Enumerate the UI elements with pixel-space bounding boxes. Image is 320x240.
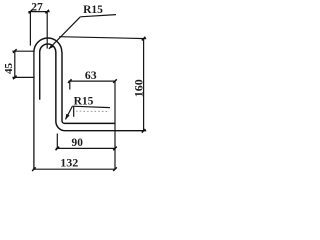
svg-text:132: 132	[60, 156, 78, 170]
dimension 45 line	[14, 51, 16, 79]
part outline: right leg right edge with bottom bend inner radius and strip top edge	[62, 52, 115, 123]
dimension 90 left extension line	[56, 134, 58, 149]
dimension 27 right extension line crossing hook	[46, 12, 48, 49]
svg-text:63: 63	[85, 68, 97, 82]
faint scan remnant dotted line under R15 label	[76, 110, 109, 112]
tick 27 right	[45, 10, 49, 14]
label R15 bottom leader arrowhead	[65, 114, 69, 120]
dimension 63 line	[69, 80, 116, 82]
part outline: right leg left edge with bottom bend outer radius, bottom edge, continuing as 160 extension	[56, 52, 146, 131]
dimension 132 line	[33, 168, 115, 170]
part outline: hook inner arc	[40, 44, 56, 52]
svg-text:45: 45	[3, 63, 15, 75]
part outline: hook outer arc	[34, 38, 62, 52]
tick 63 right	[113, 79, 117, 83]
part outline: left leg outer edge, continuing as 132 extension line	[33, 52, 35, 170]
label R15 bottom left end vertical tick	[73, 106, 75, 116]
dimension 160 top extension line	[59, 37, 146, 39]
label R15 top leader	[49, 17, 80, 49]
dimension 45 top extension line	[12, 50, 33, 52]
tick 132 left	[32, 167, 36, 171]
dimension 27 left extension line	[29, 12, 31, 46]
part outline: left leg inner edge	[39, 52, 41, 100]
dimension 63 left extension line	[69, 81, 71, 90]
shared right extension line / strip end cap	[114, 81, 116, 169]
tick 132 right	[113, 167, 117, 171]
tick 90 left	[56, 147, 60, 151]
tick 160 top	[142, 37, 146, 41]
dimension 45 bottom extension line	[12, 76, 34, 78]
label R15 top leader arrowhead	[49, 45, 54, 50]
tick 63 left	[68, 79, 72, 83]
dimension 27 line	[28, 11, 49, 13]
tick 90 right	[113, 147, 117, 151]
label R15 bottom leader	[66, 106, 73, 119]
svg-text:90: 90	[72, 137, 84, 149]
dimension 160 line	[143, 39, 145, 131]
dimension 90 line	[56, 147, 115, 149]
tick 45 top	[13, 49, 17, 53]
svg-text:R15: R15	[83, 4, 103, 16]
tick 160 bottom	[142, 129, 146, 133]
tick 27 left	[29, 10, 33, 14]
tick 45 bottom	[13, 76, 17, 80]
label R15 top underline	[80, 15, 116, 17]
label R15 bottom underline	[72, 106, 110, 107]
